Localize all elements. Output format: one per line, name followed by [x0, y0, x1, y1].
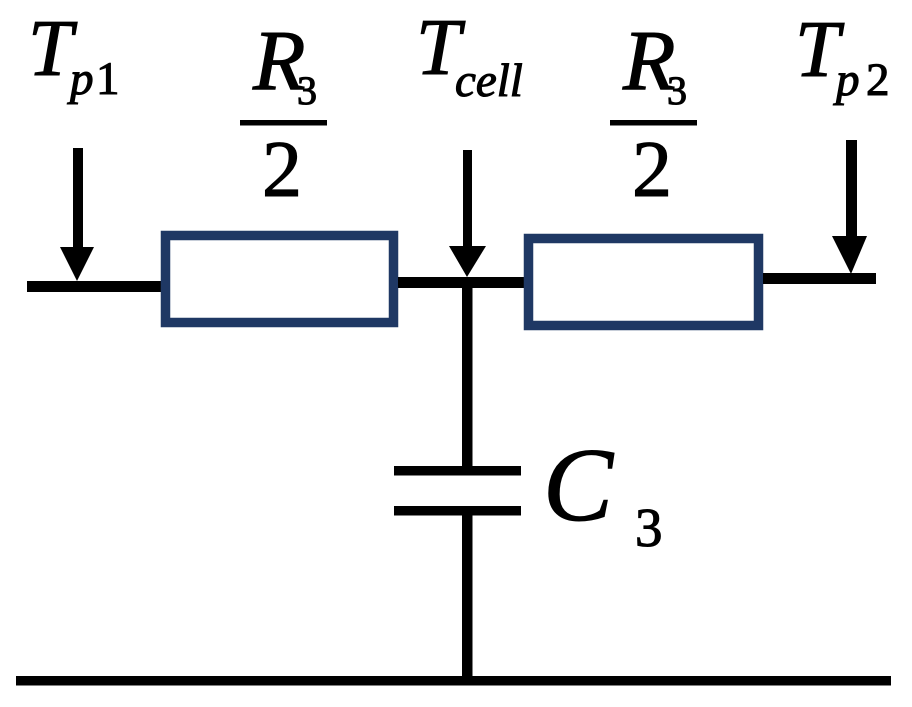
- wire capacitor to ground bus: [462, 515, 473, 680]
- node label T_p2: [795, 6, 890, 106]
- label R3/2 left (fraction): [240, 12, 327, 214]
- resistor R3/2 left: [166, 236, 394, 323]
- svg-text:2: 2: [632, 126, 672, 214]
- wire center junction down to capacitor: [462, 277, 473, 466]
- label R3/2 right (fraction): [610, 12, 697, 214]
- node label T_p1: [28, 5, 120, 105]
- ground bus wire: [16, 676, 891, 686]
- svg-text:1: 1: [96, 53, 120, 105]
- wire left lead: [27, 281, 164, 292]
- arrow into node Tp1: [60, 148, 94, 281]
- wire R1 to center junction: [398, 277, 524, 288]
- svg-text:3: 3: [297, 68, 317, 113]
- label C3: [543, 426, 663, 558]
- svg-text:2: 2: [262, 126, 302, 214]
- resistor R3/2 right: [529, 239, 759, 326]
- arrow into node Tp2: [832, 140, 867, 274]
- wire right lead: [763, 273, 876, 284]
- svg-text:3: 3: [667, 68, 687, 113]
- svg-text:p: p: [67, 53, 94, 105]
- svg-text:cell: cell: [455, 55, 523, 107]
- svg-text:p: p: [833, 54, 860, 106]
- node label T_cell: [416, 4, 523, 107]
- svg-text:3: 3: [635, 497, 663, 558]
- capacitor C3 top plate: [394, 466, 521, 476]
- svg-text:C: C: [543, 426, 615, 543]
- svg-text:2: 2: [866, 54, 890, 106]
- arrow into node Tcell: [449, 150, 486, 277]
- capacitor C3 bottom plate: [394, 506, 521, 516]
